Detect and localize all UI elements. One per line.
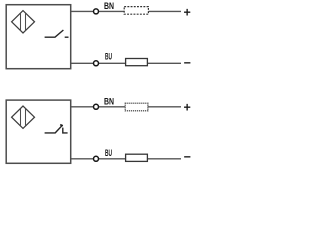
svg-text:BU: BU <box>105 51 112 62</box>
svg-text:BN: BN <box>104 95 114 106</box>
svg-text:+: + <box>184 100 191 114</box>
svg-text:BU: BU <box>105 147 112 158</box>
svg-text:−: − <box>184 56 191 70</box>
svg-text:−: − <box>184 150 191 164</box>
svg-text:+: + <box>184 5 191 19</box>
svg-text:BN: BN <box>104 0 114 11</box>
